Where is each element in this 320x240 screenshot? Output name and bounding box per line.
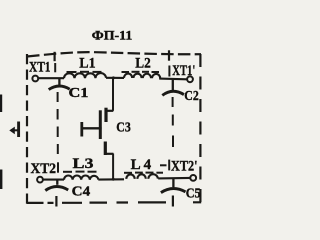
svg-text:XT2: XT2 [31, 161, 57, 177]
svg-text:L2: L2 [135, 54, 151, 71]
svg-text:L1: L1 [79, 55, 95, 72]
svg-text:C2: C2 [184, 89, 199, 104]
svg-text:C1: C1 [69, 86, 89, 101]
svg-text:C5: C5 [186, 187, 201, 202]
svg-text:XT1': XT1' [172, 63, 195, 79]
svg-text:C4: C4 [72, 185, 91, 200]
svg-text:XT1: XT1 [29, 60, 51, 76]
svg-text:L3: L3 [73, 155, 94, 172]
svg-text:C3: C3 [116, 120, 131, 135]
svg-text:L 4: L 4 [131, 156, 152, 173]
svg-text:ФП-11: ФП-11 [92, 29, 133, 43]
svg-text:XT2': XT2' [171, 158, 198, 174]
